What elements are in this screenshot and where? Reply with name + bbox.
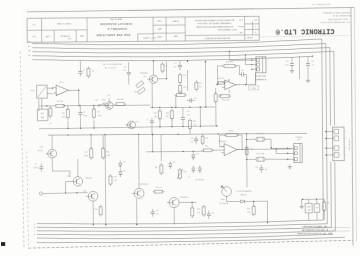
wire IC2 output right: [236, 73, 256, 86]
svg-text:C2: C2: [83, 112, 85, 114]
wire input bus: [39, 104, 151, 106]
resistor R21: [153, 187, 165, 193]
resistor R6: [114, 99, 126, 106]
ground C13: [306, 78, 310, 83]
svg-text:FS2 T2A: FS2 T2A: [256, 152, 264, 155]
svg-text:HALIFAX ROAD, BOWERHILL,: HALIFAX ROAD, BOWERHILL,: [322, 11, 350, 14]
svg-text:CHK: CHK: [157, 19, 162, 21]
supply net 3: [32, 47, 331, 232]
title cell modification details: [204, 37, 230, 40]
op-amp IC2: [218, 78, 239, 90]
svg-text:D5: D5: [173, 162, 175, 164]
resistor R32: [166, 109, 174, 127]
svg-text:4700: 4700: [307, 206, 311, 208]
sheet bottom border: [28, 240, 353, 248]
ground bus left: [39, 117, 218, 130]
svg-text:ALL RESISTORS 5% CARBON FILM U: ALL RESISTORS 5% CARBON FILM UNLESS: [194, 18, 234, 21]
svg-text:TR3: TR3: [135, 121, 138, 123]
svg-text:R9 TO 22.5V: R9 TO 22.5V: [105, 67, 117, 69]
wire IC3 out: [237, 148, 292, 150]
svg-text:R14 33K: R14 33K: [226, 62, 234, 64]
svg-text:7d: 7d: [28, 41, 30, 43]
fuse FS2: [246, 152, 287, 161]
capacitor C2: [78, 106, 87, 118]
wire psu rail: [302, 198, 325, 199]
resistor R29: [323, 199, 331, 220]
svg-text:CHANNEL A: CHANNEL A: [255, 78, 267, 81]
resistor R12: [174, 91, 187, 97]
svg-text:R5: R5: [97, 112, 99, 114]
title cell notes: [194, 18, 237, 31]
svg-text:MELKSHAM, WILTS: MELKSHAM, WILTS: [332, 14, 351, 17]
transistor TR6: [83, 191, 98, 202]
svg-text:CPR: CPR: [45, 35, 50, 37]
svg-text:5b: 5b: [28, 50, 30, 52]
svg-text:C11: C11: [316, 207, 319, 209]
svg-text:R32: R32: [166, 113, 169, 115]
title cell text drawing no: [45, 22, 84, 37]
input socket mid: [39, 192, 87, 196]
svg-text:b: b: [34, 227, 35, 229]
resistor R28: [247, 201, 255, 217]
wire tap 256: [255, 73, 257, 85]
resistor R23: [188, 118, 196, 134]
svg-text:TDA2030: TDA2030: [218, 140, 226, 143]
svg-text:C8: C8: [212, 213, 214, 215]
wire TR2 emitter down: [151, 83, 153, 108]
wire 0V drop: [298, 56, 300, 79]
svg-text:D4: D4: [123, 170, 125, 172]
fuse FS1: [246, 132, 287, 149]
svg-text:R26: R26: [197, 209, 200, 211]
label chan a box: [249, 86, 259, 90]
svg-text:R13: R13: [198, 83, 201, 85]
wire 246 down: [246, 134, 248, 188]
svg-text:1K8: 1K8: [154, 116, 157, 118]
connector PL3 tall: [325, 127, 346, 161]
capacitor C4: [174, 61, 183, 70]
label SK2: [296, 136, 304, 142]
svg-text:2N3055/4: 2N3055/4: [180, 197, 190, 199]
capacitor C9: [151, 209, 160, 217]
svg-text:APP: APP: [157, 27, 162, 30]
svg-text:LOUDSPEAKER: LOUDSPEAKER: [237, 190, 253, 193]
svg-text:CITRONIC LTD.®: CITRONIC LTD.®: [275, 26, 335, 36]
svg-text:SCALE: SCALE: [172, 20, 179, 23]
svg-text:4: 4: [345, 154, 346, 156]
svg-text:CIRCUIT DIAGRAM: CIRCUIT DIAGRAM: [100, 22, 132, 26]
diode D7: [192, 152, 199, 160]
svg-text:R4: R4: [62, 113, 64, 115]
svg-text:F781 TO THE: F781 TO THE: [57, 22, 71, 24]
svg-text:C4: C4: [174, 63, 176, 65]
wire SK2 link: [276, 149, 287, 153]
diode D6 arrow: [241, 200, 256, 203]
capacitor C14: [255, 165, 267, 173]
resistor R1: [54, 101, 66, 108]
svg-text:C17: C17: [241, 70, 244, 72]
transistor TR2: [140, 72, 158, 84]
supply net 2: [32, 44, 327, 229]
capacitor C1: [78, 61, 85, 77]
capacitor C10 electrolytic: [305, 199, 312, 221]
wire output stage: [174, 202, 197, 225]
capacitor C7: [146, 118, 154, 135]
ground psu: [299, 199, 303, 208]
capacitor C6: [33, 164, 43, 172]
svg-text:1K5: 1K5: [193, 124, 196, 126]
resistor R30: [201, 134, 209, 145]
svg-text:MODE LINK: MODE LINK: [255, 76, 267, 78]
svg-text:R22: R22: [155, 167, 158, 169]
wire gnd drop 200: [200, 106, 201, 126]
svg-text:BC214: BC214: [37, 150, 43, 152]
svg-text:C1: C1: [83, 70, 85, 72]
wire TR2 collector: [153, 60, 167, 79]
transistor TR7: [131, 134, 149, 199]
wire vas vertical: [151, 134, 153, 151]
svg-text:BY/SIG: BY/SIG: [246, 36, 253, 38]
svg-text:SN12 6UB ENGLAND: SN12 6UB ENGLAND: [328, 17, 348, 20]
svg-text:TU: TU: [32, 23, 35, 25]
wire gnd drop 129: [128, 77, 130, 84]
rail end labels: [28, 41, 36, 236]
op-amp IC1: [53, 82, 71, 96]
svg-text:TR1: TR1: [107, 95, 110, 97]
svg-text:7M1: 7M1: [41, 117, 45, 119]
svg-text:TH1: TH1: [183, 171, 186, 173]
supply net 4: [32, 51, 335, 236]
svg-text:W.R.T. CHASSIS OBUL: W.R.T. CHASSIS OBUL: [218, 28, 237, 31]
svg-text:TEL: MELKSHAM (0225) 705600: TEL: MELKSHAM (0225) 705600: [319, 20, 349, 23]
svg-text:ASSY: ASSY: [221, 198, 227, 201]
resistor R20: [95, 205, 103, 217]
svg-text:MC741: MC741: [218, 78, 224, 80]
resistor R17: [84, 135, 93, 160]
wire IC1 output: [68, 90, 80, 91]
svg-text:R23: R23: [193, 121, 196, 123]
resistor R7: [161, 62, 168, 73]
wire R12 net: [175, 60, 188, 107]
resistor R14 feedback: [222, 62, 237, 68]
resistor R10: [179, 73, 187, 85]
speaker drive TR9: [221, 185, 241, 202]
svg-text:D7: D7: [196, 154, 198, 156]
svg-text:R10: R10: [183, 75, 186, 77]
wire tap input top: [38, 99, 40, 111]
svg-text:C7: C7: [146, 119, 148, 121]
title block outer box: [27, 16, 259, 42]
wire tap 230: [229, 51, 251, 65]
svg-text:2N3055/4: 2N3055/4: [140, 184, 150, 186]
ground SK2: [288, 165, 292, 170]
svg-text:MIN 4R: MIN 4R: [241, 194, 248, 196]
svg-text:C9: C9: [156, 210, 158, 212]
svg-text:TP1 (+45V): TP1 (+45V): [146, 38, 157, 40]
resistor R26a: [191, 202, 194, 218]
svg-text:0.1: 0.1: [265, 169, 267, 171]
company address line 1: [322, 11, 350, 14]
diode D2: [195, 165, 204, 181]
svg-text:TR2: TR2: [143, 76, 146, 78]
svg-text:8K2: 8K2: [166, 116, 169, 118]
svg-text:C16: C16: [186, 111, 189, 113]
svg-text:c: c: [34, 231, 35, 233]
label PL3: [348, 139, 350, 151]
diode D1: [188, 165, 195, 178]
rail bottom extra: [37, 237, 345, 243]
title block perforation: [260, 35, 350, 37]
resistor R5: [92, 105, 102, 119]
svg-text:VOLTAGES MEASURED WITH NO SIGN: VOLTAGES MEASURED WITH NO SIGNAL: [196, 25, 233, 28]
svg-text:R21 1R: R21 1R: [155, 187, 162, 189]
wire IC1 to bus: [78, 90, 80, 105]
svg-text:R7: R7: [165, 66, 167, 68]
resistor R2: [87, 66, 94, 78]
svg-text:6c: 6c: [28, 46, 30, 48]
wire TR6 down: [92, 199, 137, 226]
company logo CITRONIC LTD: [275, 26, 335, 36]
svg-text:R1 10K: R1 10K: [57, 101, 64, 103]
resistor R9 diag: [137, 87, 145, 94]
sheet right edge: [351, 7, 357, 245]
svg-text:TR4: TR4: [39, 147, 43, 149]
capacitor C8: [207, 211, 214, 219]
resistor R26: [197, 205, 205, 217]
svg-text:47u: 47u: [123, 70, 126, 72]
resistor R8 diag: [134, 81, 144, 94]
svg-text:R3: R3: [49, 123, 51, 125]
title cell text issue no: [32, 23, 36, 37]
connector SK1 input: [30, 85, 53, 109]
svg-text:CHANNEL A: CHANNEL A: [107, 27, 127, 31]
svg-text:10u: 10u: [187, 114, 190, 116]
svg-text:A19 2345 IN04-L.T0: A19 2345 IN04-L.T0: [311, 3, 330, 6]
company address line 4: [319, 20, 349, 23]
transistor TR1: [103, 95, 113, 109]
capacitor C15: [190, 136, 198, 144]
note set volts: [103, 63, 123, 69]
svg-text:SET VOLTS ACROSS: SET VOLTS ACROSS: [103, 63, 123, 66]
svg-text:R31: R31: [154, 113, 157, 115]
svg-text:DRN: DRN: [157, 35, 162, 37]
svg-text:R2: R2: [92, 71, 94, 73]
svg-text:2: 2: [255, 25, 256, 27]
svg-text:RV2 10K: RV2 10K: [222, 100, 230, 102]
svg-text:FS1 T2A: FS1 T2A: [256, 132, 264, 135]
svg-text:6: 6: [255, 31, 256, 33]
svg-text:C13: C13: [311, 61, 314, 63]
label loudspeaker: [237, 190, 253, 196]
svg-text:R6 10K: R6 10K: [117, 99, 124, 101]
diode D4: [119, 169, 126, 177]
label mode link: [255, 76, 267, 81]
connector PL2 mode link: [251, 57, 266, 73]
svg-text:C3: C3: [124, 66, 126, 68]
svg-text:2N5401: 2N5401: [85, 178, 92, 180]
svg-text:R18: R18: [106, 152, 109, 154]
sheet left inner edge: [27, 151, 29, 247]
svg-text:D 4756-05: D 4756-05: [60, 35, 70, 37]
resistor R24 feedback: [224, 130, 239, 136]
svg-text:100u: 100u: [285, 65, 289, 67]
svg-text:OTHERWISE STATED. ALL CAPS IN: OTHERWISE STATED. ALL CAPS IN uF: [197, 22, 232, 25]
svg-text:C4d: C4d: [67, 38, 71, 40]
svg-text:750R: 750R: [97, 115, 102, 117]
svg-text:R25: R25: [205, 146, 208, 148]
svg-text:47u: 47u: [174, 67, 177, 69]
svg-text:PA6 45B AMPLIFIER: PA6 45B AMPLIFIER: [96, 33, 131, 37]
wire IC2 feedback: [217, 66, 240, 85]
svg-text:R12: R12: [178, 91, 181, 93]
capacitor C12: [285, 57, 294, 68]
svg-text:4K7: 4K7: [134, 91, 137, 93]
resistor R11: [179, 83, 187, 95]
svg-text:C6: C6: [35, 164, 37, 166]
svg-text:R17: R17: [85, 152, 88, 154]
svg-text:R19: R19: [113, 177, 116, 179]
resistor R4: [62, 106, 70, 120]
wire aux down: [256, 201, 269, 223]
resistor R25: [201, 145, 224, 151]
svg-text:AMP No 45B: AMP No 45B: [110, 18, 122, 21]
ground C12: [290, 69, 294, 74]
svg-text:PL1: PL1: [41, 113, 44, 115]
title cell iss numbers: [238, 18, 258, 38]
transistor TR8: [167, 197, 190, 208]
svg-text:MODIFICATION DETAILS: MODIFICATION DETAILS: [204, 37, 230, 40]
resistor RV2 preset: [218, 90, 231, 102]
svg-text:REPRODUCED 1503 P1.N · A4: REPRODUCED 1503 P1.N · A4 · 12/85: [297, 232, 333, 235]
resistor R19: [109, 174, 117, 186]
svg-text:47p: 47p: [190, 141, 193, 143]
capacitor C3: [123, 62, 131, 77]
svg-text:RAD: RAD: [173, 35, 178, 38]
wire main mid rail: [48, 132, 307, 136]
svg-text:3: 3: [345, 148, 346, 150]
svg-text:OUTPUT PL3: OUTPUT PL3: [348, 139, 350, 151]
capacitor C5: [187, 98, 197, 103]
resistor R15 input: [217, 81, 227, 85]
svg-text:R20: R20: [95, 209, 98, 211]
svg-text:0.1: 0.1: [312, 64, 314, 66]
title block row dividers: [27, 24, 259, 43]
switch S1 lin-disc: [95, 100, 107, 107]
revision table: [284, 226, 350, 236]
scanner mark bottom-left: [1, 242, 5, 246]
svg-text:1-75: 1-75: [239, 19, 243, 21]
transistor TR4: [37, 135, 70, 177]
supply net 1: [32, 39, 323, 225]
svg-text:2: 2: [345, 138, 346, 140]
resistor R27: [245, 145, 253, 156]
svg-text:1M5/4: 1M5/4: [228, 130, 233, 132]
svg-text:C14: C14: [255, 167, 258, 169]
svg-text:1-71: 1-71: [254, 18, 258, 20]
capacitor C13: [306, 57, 314, 69]
title cell gpc subcell: [138, 34, 154, 42]
svg-text:1: 1: [345, 131, 346, 133]
svg-text:47u: 47u: [156, 214, 159, 216]
label TR5 type: [85, 178, 92, 180]
transistor TR5: [65, 159, 83, 194]
svg-text:W4 (L): W4 (L): [238, 25, 244, 27]
svg-text:TR5: TR5: [67, 176, 71, 178]
resistor R16: [214, 88, 222, 126]
connector SK2: [287, 143, 302, 162]
resistor R3: [49, 106, 52, 125]
bus top junctions: [229, 50, 313, 58]
wire mid vertical 206: [205, 61, 207, 107]
svg-text:SKT: SKT: [297, 139, 300, 141]
company address line 2: [332, 14, 351, 17]
transistor TR3 low: [125, 121, 138, 129]
supply net 5 bottom: [37, 234, 333, 239]
svg-text:470p: 470p: [83, 115, 87, 117]
diode D5: [169, 161, 176, 169]
svg-text:4K7: 4K7: [250, 148, 253, 150]
resistor R22: [154, 134, 163, 175]
resistor R13: [195, 80, 203, 91]
sheet left edge (dashed): [20, 51, 24, 248]
title block column dividers: [42, 16, 253, 42]
svg-text:RV 100P/A: RV 100P/A: [219, 202, 229, 205]
connector SK1 lower: [37, 109, 48, 121]
wire C13 down: [307, 68, 309, 77]
svg-text:D2 1N4148: D2 1N4148: [195, 179, 204, 181]
sheet top border: [27, 7, 354, 11]
title cell chk app drn: [157, 19, 162, 37]
svg-text:x2b: x2b: [240, 31, 243, 33]
svg-text:DISC: DISC: [102, 100, 107, 102]
svg-text:R28: R28: [247, 208, 250, 210]
title cell text drawing title: [96, 18, 133, 38]
capacitor C17: [238, 70, 246, 85]
wire mid band: [150, 106, 215, 108]
supply net 5 top: [32, 56, 312, 61]
diode D3: [119, 160, 126, 168]
svg-text:C15: C15: [191, 138, 194, 140]
svg-text:MPSA06: MPSA06: [140, 72, 147, 75]
wire 105 down: [104, 135, 106, 226]
thermistor TH1: [177, 168, 187, 180]
capacitor C11 electrolytic: [314, 199, 320, 220]
resistor R31: [154, 109, 162, 127]
svg-text:C5: C5: [194, 98, 196, 100]
capacitor C16: [181, 107, 190, 126]
svg-text:D3: D3: [123, 161, 125, 163]
wire IC3 feedback: [220, 135, 243, 150]
svg-text:2200u: 2200u: [33, 167, 38, 169]
svg-text:C12: C12: [286, 61, 289, 63]
svg-text:1K2: 1K2: [114, 180, 117, 182]
rail label TP: [67, 38, 156, 41]
resistor R18: [101, 135, 111, 160]
company address line 3: [328, 17, 348, 20]
svg-text:d: d: [34, 234, 35, 236]
wire vas band: [146, 151, 203, 153]
sheet note top right: [311, 3, 330, 6]
op-amp IC3: [218, 140, 240, 156]
label RV1: [219, 198, 229, 205]
svg-text:D1: D1: [188, 176, 190, 178]
title cell scale: [172, 20, 179, 38]
